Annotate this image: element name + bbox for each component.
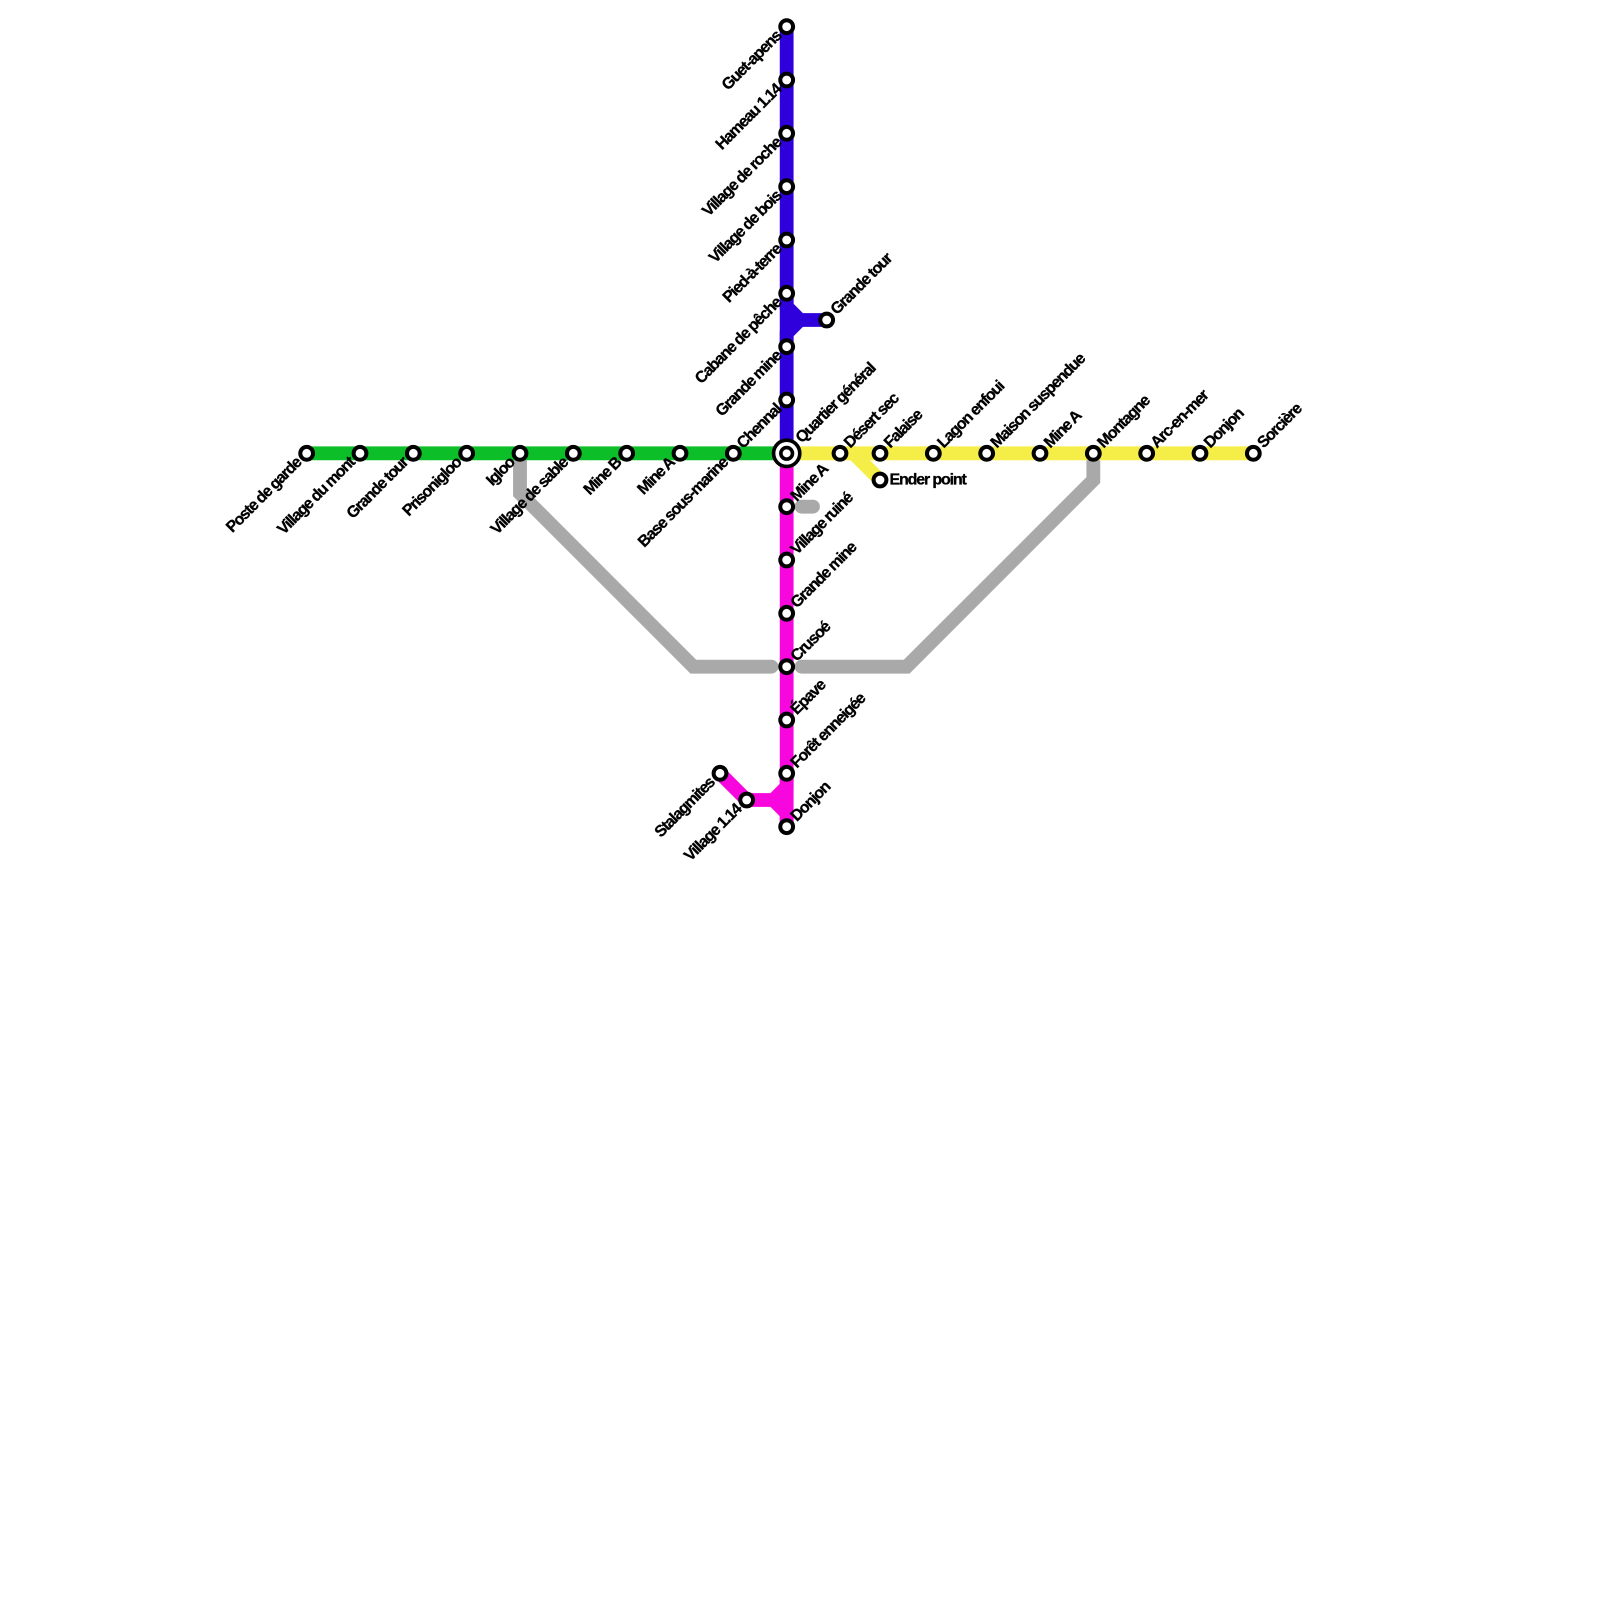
gray line west segment: Igloo to Crusoé [520,453,772,666]
blue branch to Grande tour (lower) [787,320,800,347]
station Grande mine [780,340,793,353]
station Chennal [780,394,793,407]
station Désert sec [834,447,847,460]
station Mine A [674,447,687,460]
interchange station Quartier général [774,440,800,466]
yellow branch to Ender point [840,453,880,480]
station Base sous-marine [727,447,740,460]
station Igloo [514,447,527,460]
station Poste de garde [300,447,313,460]
gray stub east of Mine A [802,500,814,514]
magenta branch to Stalagmites (lower) [773,800,786,827]
station Mine A [1034,447,1047,460]
station Village de roche [780,127,793,140]
station Donjon [780,820,793,833]
station Mine B [620,447,633,460]
station Village de bois [780,180,793,193]
station Village ruiné [780,554,793,567]
blue branch to Grande tour (upper) [787,293,827,320]
station Épave [780,714,793,727]
station Falaise [874,447,887,460]
station Grande tour [407,447,420,460]
gray line east segment: Crusoé to Montagne [802,453,1094,666]
station Crusoé [780,660,793,673]
station Grande mine [780,607,793,620]
magenta line [780,453,794,826]
station Lagon enfoui [927,447,940,460]
station Village de sable [567,447,580,460]
station Sorcière [1247,447,1260,460]
magenta branch to Stalagmites (upper) [720,773,787,800]
station Stalagmites [714,767,727,780]
station Village 1.14 [740,794,753,807]
station Maison suspendue [980,447,993,460]
station Guet-apens [780,20,793,33]
station Arc-en-mer [1140,447,1153,460]
station Ender point [874,474,887,487]
station Grande tour [820,314,833,327]
svg-text:Ender point: Ender point [890,472,968,489]
station Donjon [1194,447,1207,460]
yellow line [787,446,1254,460]
blue line [780,27,794,454]
station Village du mont [354,447,367,460]
station Hameau 1.14 [780,74,793,87]
green line [307,446,787,460]
station Forêt enneigée [780,767,793,780]
station Cabane de pêche [780,287,793,300]
station Prisonigloo [460,447,473,460]
station Montagne [1087,447,1100,460]
station Mine A [780,500,793,513]
station Pied-à-terre [780,234,793,247]
